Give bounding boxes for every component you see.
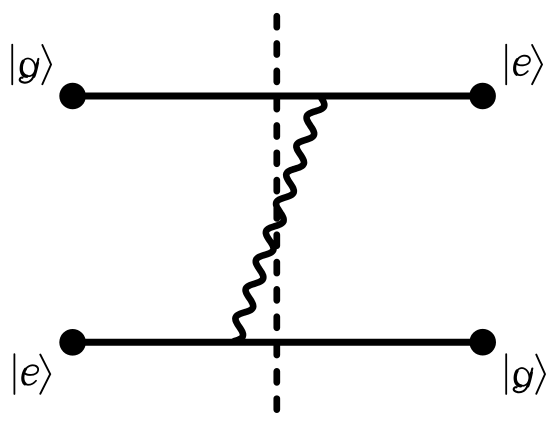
label |g> top-left: [12, 45, 51, 85]
top level line: [73, 93, 483, 100]
node dot top-right: [469, 83, 496, 110]
photon wavy line: [234, 97, 324, 341]
label |e> bottom-left: [14, 354, 50, 394]
dashed vertical line (interaction/time cut): [273, 16, 280, 410]
node dot bottom-right: [469, 329, 496, 356]
bottom level line: [73, 339, 483, 346]
node dot top-left: [59, 83, 86, 110]
label |g> bottom-right: [506, 354, 545, 394]
node dot bottom-left: [59, 329, 86, 356]
label |e> top-right: [506, 45, 542, 85]
